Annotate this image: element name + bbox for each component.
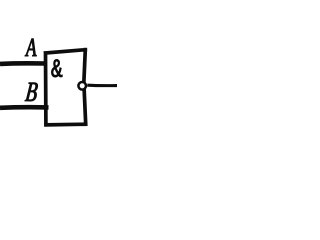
wire B (input B) [0,105,49,110]
output wire [87,84,117,88]
NAND gate body (rectangle) [46,50,86,125]
inversion bubble [78,82,86,90]
wire A (input A) [0,61,47,66]
ampersand symbol (AND function) [52,60,63,78]
label A [25,39,37,56]
label B [25,83,38,101]
